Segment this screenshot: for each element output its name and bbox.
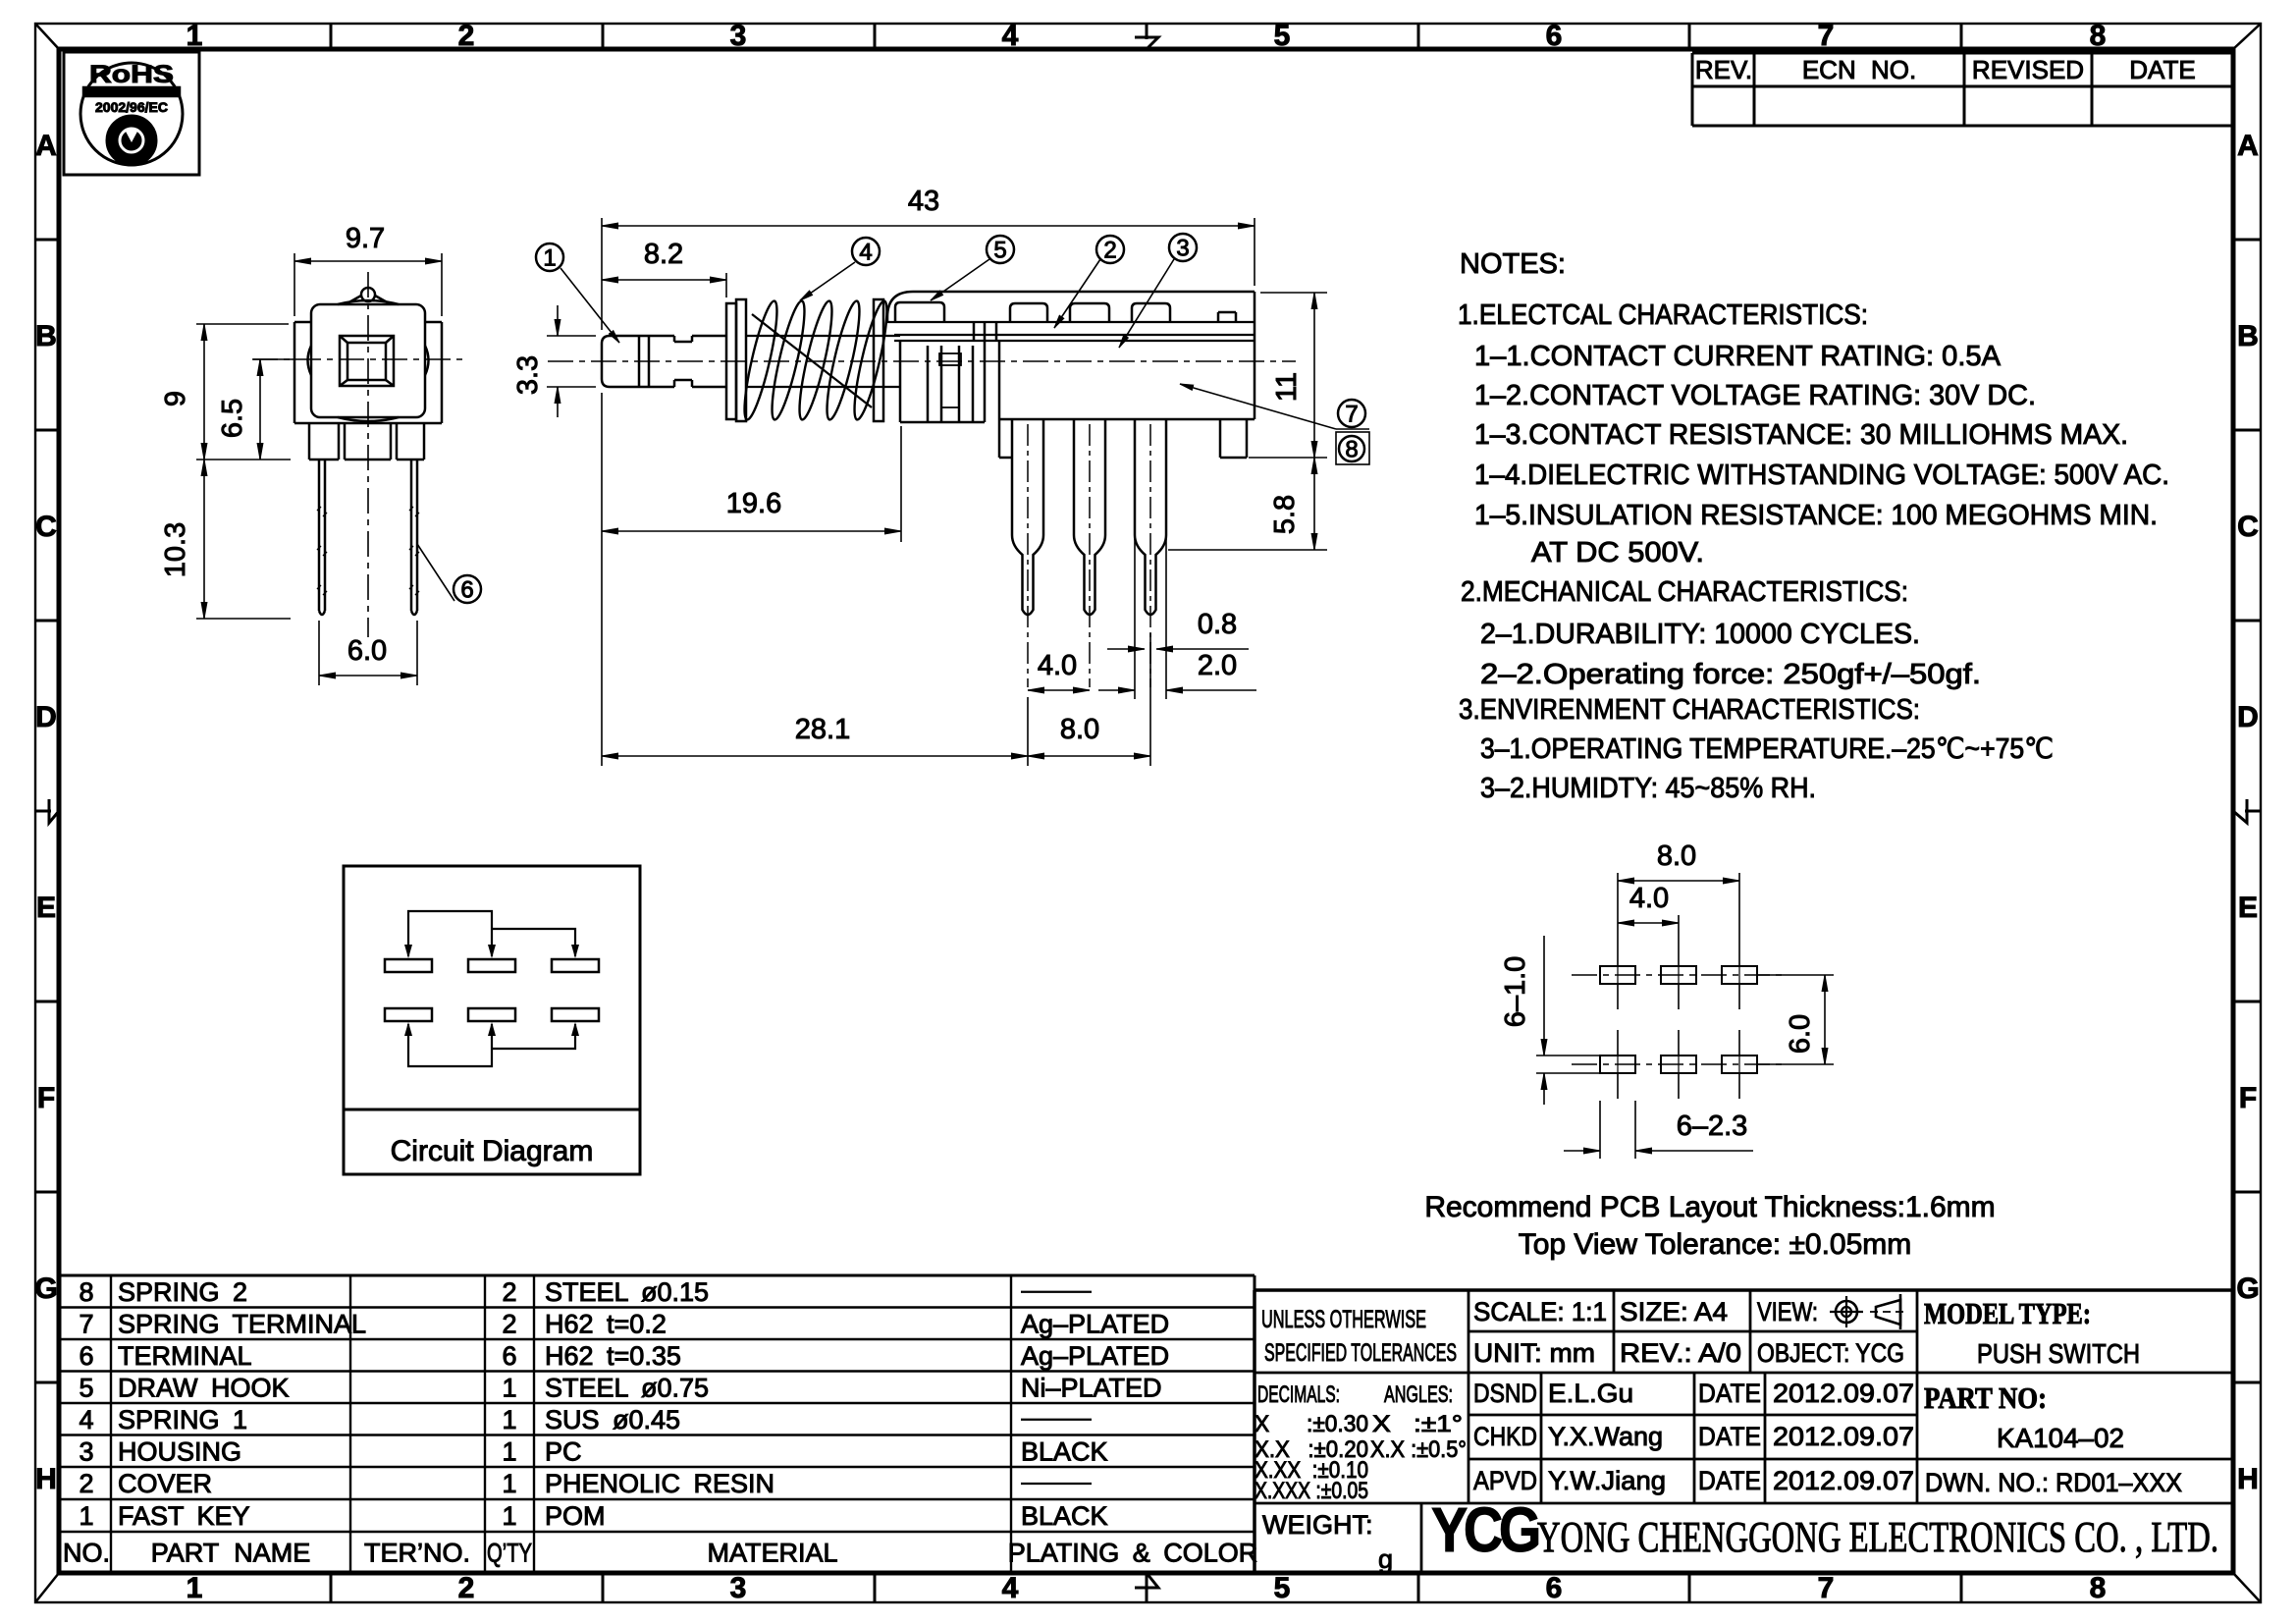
side view: cover plate lines bbox=[887, 321, 1255, 323]
side view: right mounting foot bbox=[1219, 419, 1222, 458]
svg-text:G: G bbox=[2236, 1272, 2259, 1305]
svg-text:1: 1 bbox=[187, 20, 203, 52]
svg-text:3: 3 bbox=[730, 1572, 747, 1604]
RoHS logo box bbox=[64, 52, 199, 175]
bottom centering mark bbox=[1146, 1587, 1148, 1602]
svg-text:9: 9 bbox=[160, 391, 191, 406]
svg-text:SPRING TERMINAL: SPRING TERMINAL bbox=[118, 1309, 366, 1338]
svg-text:6–2.3: 6–2.3 bbox=[1677, 1110, 1748, 1142]
svg-text:DRAW HOOK: DRAW HOOK bbox=[118, 1373, 290, 1402]
title block frame bbox=[1255, 1288, 2233, 1292]
dimension 6.0 bbox=[318, 621, 320, 685]
svg-text:6: 6 bbox=[79, 1341, 93, 1371]
front view: bottom arc of cover bbox=[338, 417, 399, 421]
dimension 4.0 bbox=[1028, 689, 1090, 691]
front view: horizontal centerline bbox=[252, 358, 466, 360]
pcb pad r1c3 bbox=[1722, 966, 1757, 984]
svg-text:G: G bbox=[34, 1272, 57, 1305]
svg-text:8: 8 bbox=[2090, 1572, 2107, 1604]
svg-text:MODEL TYPE:: MODEL TYPE: bbox=[1924, 1296, 2091, 1330]
pcb row centerlines bbox=[1572, 974, 1787, 976]
svg-text:SPECIFIED TOLERANCES: SPECIFIED TOLERANCES bbox=[1264, 1339, 1457, 1367]
dimension 10.3 bbox=[196, 618, 291, 620]
pcb dimension 6.0 bbox=[1757, 974, 1834, 976]
svg-text:1: 1 bbox=[502, 1469, 516, 1498]
svg-text:1: 1 bbox=[502, 1405, 516, 1435]
svg-text:REV.: A/0: REV.: A/0 bbox=[1620, 1338, 1741, 1368]
svg-text:2: 2 bbox=[502, 1309, 516, 1338]
svg-text:5.8: 5.8 bbox=[1269, 495, 1301, 534]
svg-text:1.ELECTCAL CHARACTERISTICS:: 1.ELECTCAL CHARACTERISTICS: bbox=[1458, 299, 1868, 331]
RoHS band bbox=[82, 86, 181, 97]
dimension 3.3 bbox=[547, 335, 596, 337]
svg-text:H62 t=0.35: H62 t=0.35 bbox=[545, 1341, 681, 1371]
svg-text:B: B bbox=[2237, 320, 2259, 352]
svg-text:SIZE: A4: SIZE: A4 bbox=[1620, 1297, 1728, 1326]
svg-text:4.0: 4.0 bbox=[1629, 883, 1669, 914]
corner diagonal marks bbox=[35, 24, 59, 49]
side view: pin3 edge extension lines bbox=[1134, 535, 1136, 699]
first angle projection cone symbol bbox=[1876, 1300, 1900, 1325]
svg-text:2–1.DURABILITY: 10000 CYCLES.: 2–1.DURABILITY: 10000 CYCLES. bbox=[1480, 619, 1920, 650]
pcb dimension 4.0 bbox=[1678, 915, 1680, 941]
side view: housing body bbox=[998, 341, 1001, 419]
svg-text:REVISED: REVISED bbox=[1972, 55, 2084, 84]
svg-text:AT DC 500V.: AT DC 500V. bbox=[1531, 537, 1704, 568]
svg-text:3.3: 3.3 bbox=[512, 355, 544, 395]
svg-text:OBJECT: YCG: OBJECT: YCG bbox=[1757, 1338, 1904, 1368]
svg-text:DECIMALS:: DECIMALS: bbox=[1257, 1381, 1340, 1408]
svg-text:Recommend PCB Layout Thickn: Recommend PCB Layout Thickness:1.6mm bbox=[1424, 1191, 1995, 1223]
pcb dimension 8.0 bbox=[1617, 873, 1619, 941]
border zone tick marks bottom bbox=[330, 1573, 333, 1602]
dimension 8.2 bbox=[725, 273, 727, 298]
pcb dimension 6-2.3 bbox=[1599, 1101, 1601, 1159]
dimension 28.1 bbox=[601, 393, 603, 766]
svg-text:6: 6 bbox=[1546, 20, 1563, 52]
svg-text:ANGLES:: ANGLES: bbox=[1384, 1381, 1453, 1408]
svg-text:SUS ø0.45: SUS ø0.45 bbox=[545, 1405, 680, 1435]
svg-text:H: H bbox=[35, 1463, 57, 1495]
svg-text:5: 5 bbox=[79, 1373, 93, 1402]
svg-text:2012.09.07: 2012.09.07 bbox=[1773, 1466, 1914, 1495]
circuit wire bottom 2-3 bbox=[492, 1024, 575, 1049]
svg-text:Q’TY: Q’TY bbox=[487, 1539, 532, 1568]
svg-text:DSND: DSND bbox=[1473, 1379, 1537, 1408]
front view: right terminal pin bbox=[410, 460, 413, 611]
svg-text:X.X :±0.5°: X.X :±0.5° bbox=[1370, 1436, 1467, 1463]
svg-text:3–1.OPERATING TEMPERATURE.–25℃: 3–1.OPERATING TEMPERATURE.–25℃~+75℃ bbox=[1480, 733, 2054, 765]
dimension 43 bbox=[601, 218, 603, 330]
svg-text:C: C bbox=[35, 511, 57, 543]
dimension 9 bbox=[196, 323, 289, 325]
svg-text:Ag–PLATED: Ag–PLATED bbox=[1021, 1341, 1169, 1371]
svg-text:BLACK: BLACK bbox=[1021, 1436, 1108, 1466]
svg-text:Y.X.Wang: Y.X.Wang bbox=[1548, 1422, 1663, 1451]
svg-text:4: 4 bbox=[79, 1405, 93, 1435]
svg-text:5: 5 bbox=[993, 237, 1006, 263]
svg-text:2012.09.07: 2012.09.07 bbox=[1773, 1379, 1914, 1408]
svg-text:7: 7 bbox=[1818, 20, 1835, 52]
dimension 8.0 bbox=[1028, 755, 1150, 757]
svg-text:H62 t=0.2: H62 t=0.2 bbox=[545, 1309, 667, 1338]
svg-text:3–2.HUMIDTY: 45~85% RH.: 3–2.HUMIDTY: 45~85% RH. bbox=[1480, 773, 1816, 804]
svg-text:11: 11 bbox=[1271, 372, 1303, 402]
svg-text:6.0: 6.0 bbox=[347, 635, 387, 667]
side view: shaft rod behind spring bbox=[746, 335, 900, 337]
svg-text:Y.W.Jiang: Y.W.Jiang bbox=[1548, 1466, 1666, 1495]
svg-text:1: 1 bbox=[79, 1501, 93, 1531]
dimension 0.8 bbox=[1107, 648, 1145, 650]
svg-text:6: 6 bbox=[460, 576, 473, 603]
svg-text:SCALE: 1:1: SCALE: 1:1 bbox=[1473, 1297, 1607, 1326]
svg-text:E: E bbox=[2238, 892, 2258, 924]
svg-text:A: A bbox=[2237, 130, 2259, 162]
svg-text:PUSH SWITCH: PUSH SWITCH bbox=[1977, 1338, 2140, 1369]
svg-text:Ag–PLATED: Ag–PLATED bbox=[1021, 1309, 1169, 1338]
RoHS logo circle bbox=[80, 63, 183, 165]
svg-text:2012.09.07: 2012.09.07 bbox=[1773, 1422, 1914, 1451]
svg-text:NO.: NO. bbox=[63, 1539, 110, 1568]
svg-text:2: 2 bbox=[1103, 237, 1116, 263]
svg-text:CHKD: CHKD bbox=[1473, 1422, 1537, 1451]
svg-text:7: 7 bbox=[79, 1309, 93, 1338]
svg-text:COVER: COVER bbox=[118, 1469, 212, 1498]
svg-text:2: 2 bbox=[79, 1469, 93, 1498]
pcb pad r1c1 bbox=[1600, 966, 1635, 984]
front view: button bevel lines bbox=[340, 336, 347, 343]
svg-text:YCG: YCG bbox=[1431, 1494, 1538, 1565]
callout 3 housing bbox=[1119, 259, 1174, 348]
pcb dimension 6-1.0 bbox=[1543, 936, 1545, 1056]
dimension 19.6 bbox=[900, 426, 902, 542]
svg-text:2002/96/EC: 2002/96/EC bbox=[95, 99, 168, 115]
svg-text:DATE: DATE bbox=[1698, 1422, 1761, 1451]
svg-text:6: 6 bbox=[1546, 1572, 1563, 1604]
side view: foot bottom extension line bbox=[1249, 457, 1327, 459]
svg-text:A: A bbox=[35, 130, 57, 162]
svg-text:5: 5 bbox=[1274, 20, 1291, 52]
svg-text:7: 7 bbox=[1345, 401, 1358, 427]
circuit pad top 1 bbox=[385, 959, 432, 972]
svg-text:8.0: 8.0 bbox=[1657, 840, 1696, 872]
side view: cover right notch bbox=[1217, 312, 1220, 322]
svg-text:3: 3 bbox=[730, 20, 747, 52]
svg-text:1–1.CONTACT CURRENT RATING:: 1–1.CONTACT CURRENT RATING: 0.5A bbox=[1474, 341, 2002, 372]
side view: draw hook hump bbox=[895, 302, 944, 322]
callout 4 spring 1 bbox=[800, 262, 855, 300]
svg-text:6–1.0: 6–1.0 bbox=[1500, 956, 1531, 1028]
pcb pad r2c1 bbox=[1600, 1056, 1635, 1073]
border zone tick marks right bbox=[2233, 239, 2261, 242]
pcb pad r1c2 bbox=[1661, 966, 1696, 984]
svg-text:B: B bbox=[35, 320, 57, 352]
callout 7 spring terminal bbox=[1180, 384, 1336, 429]
svg-text:SPRING 2: SPRING 2 bbox=[118, 1277, 247, 1307]
svg-text:7: 7 bbox=[1818, 1572, 1835, 1604]
svg-text:F: F bbox=[2239, 1082, 2257, 1114]
circuit wire top 1-2 bbox=[408, 911, 492, 956]
svg-text:2.MECHANICAL CHARACTERISTICS:: 2.MECHANICAL CHARACTERISTICS: bbox=[1461, 576, 1908, 608]
svg-text:1: 1 bbox=[502, 1436, 516, 1466]
parts list table bbox=[61, 1274, 1255, 1277]
svg-text:X :±1°: X :±1° bbox=[1372, 1411, 1463, 1437]
svg-text:PART NAME: PART NAME bbox=[151, 1539, 311, 1568]
svg-text:FAST KEY: FAST KEY bbox=[118, 1501, 250, 1531]
svg-text:WEIGHT:: WEIGHT: bbox=[1262, 1510, 1373, 1540]
svg-text:g: g bbox=[1378, 1544, 1393, 1574]
pcb pad r2c2 bbox=[1661, 1056, 1696, 1073]
dimension 6.5 bbox=[253, 358, 294, 360]
circuit pad bottom 3 bbox=[552, 1008, 599, 1021]
svg-text:SPRING 1: SPRING 1 bbox=[118, 1405, 247, 1435]
svg-text:MATERIAL: MATERIAL bbox=[707, 1539, 837, 1568]
svg-text:DWN. NO.: RD01–XXX: DWN. NO.: RD01–XXX bbox=[1925, 1468, 2182, 1497]
circuit diagram box bbox=[344, 866, 640, 1174]
svg-text:3: 3 bbox=[79, 1436, 93, 1466]
callout 1 fast key bbox=[561, 268, 619, 343]
svg-text:6.5: 6.5 bbox=[217, 399, 248, 438]
revision table bbox=[1692, 52, 2233, 55]
side view: left mounting leg bbox=[998, 419, 1001, 458]
svg-text:TER’NO.: TER’NO. bbox=[364, 1539, 470, 1568]
circuit wire bottom 1-2 bbox=[408, 1024, 492, 1066]
svg-text:D: D bbox=[35, 701, 57, 733]
side view: plunger block bbox=[899, 341, 902, 422]
svg-text:UNLESS OTHERWISE: UNLESS OTHERWISE bbox=[1261, 1306, 1426, 1333]
svg-text:1: 1 bbox=[543, 244, 556, 271]
circuit pad top 2 bbox=[468, 959, 515, 972]
svg-text:Circuit Diagram: Circuit Diagram bbox=[391, 1135, 594, 1167]
svg-text:1–3.CONTACT RESISTANCE: 30 MIL: 1–3.CONTACT RESISTANCE: 30 MILLIOHMS MAX… bbox=[1474, 419, 2128, 451]
svg-text:Ni–PLATED: Ni–PLATED bbox=[1021, 1373, 1162, 1402]
svg-text:STEEL ø0.75: STEEL ø0.75 bbox=[545, 1373, 709, 1402]
svg-text:TERMINAL: TERMINAL bbox=[118, 1341, 252, 1371]
side view: spring end washer bbox=[874, 299, 883, 421]
front view: housing flange plate bbox=[294, 321, 312, 324]
svg-text:1–4.DIELECTRIC WITHSTANDING VO: 1–4.DIELECTRIC WITHSTANDING VOLTAGE: 500… bbox=[1474, 460, 2169, 491]
svg-text:DATE: DATE bbox=[1698, 1466, 1761, 1495]
svg-text:2: 2 bbox=[458, 1572, 475, 1604]
border zone tick marks left bbox=[35, 239, 59, 242]
svg-text:8.0: 8.0 bbox=[1060, 714, 1099, 745]
svg-text:2–2.Operating force: 250gf+/–5: 2–2.Operating force: 250gf+/–50gf. bbox=[1480, 659, 1981, 690]
svg-text:DATE: DATE bbox=[1698, 1379, 1761, 1408]
svg-text:PHENOLIC RESIN: PHENOLIC RESIN bbox=[545, 1469, 774, 1498]
right centering mark bbox=[2245, 810, 2261, 813]
first angle projection target symbol bbox=[1836, 1301, 1857, 1323]
svg-text:H: H bbox=[2237, 1463, 2259, 1495]
svg-text:PLATING & COLOR: PLATING & COLOR bbox=[1008, 1539, 1258, 1568]
side view: pin taper extension line bbox=[1168, 549, 1327, 551]
svg-text:43: 43 bbox=[908, 186, 939, 217]
front view: square push button outer bbox=[340, 336, 394, 386]
svg-text:4.0: 4.0 bbox=[1038, 650, 1077, 681]
svg-text:STEEL ø0.15: STEEL ø0.15 bbox=[545, 1277, 709, 1307]
svg-text:9.7: 9.7 bbox=[346, 223, 385, 254]
RoHS recycle dot bbox=[106, 115, 157, 166]
svg-text:8.2: 8.2 bbox=[644, 239, 683, 270]
dimension 2.0 bbox=[1098, 689, 1135, 691]
side view: main centerline bbox=[548, 360, 1296, 362]
svg-text:DATE: DATE bbox=[2129, 55, 2195, 84]
svg-text:APVD: APVD bbox=[1473, 1466, 1537, 1495]
front view: right side tab arc bbox=[425, 346, 429, 375]
front view: square push button inner bbox=[347, 343, 386, 380]
svg-text:3.ENVIRENMENT CHARACTERISTICS:: 3.ENVIRENMENT CHARACTERISTICS: bbox=[1459, 694, 1920, 726]
svg-text:BLACK: BLACK bbox=[1021, 1501, 1108, 1531]
svg-text:E: E bbox=[36, 892, 56, 924]
svg-text:PART NO:: PART NO: bbox=[1924, 1380, 2047, 1415]
svg-text:8: 8 bbox=[79, 1277, 93, 1307]
front view: cover body rounded square bbox=[311, 304, 425, 417]
side view: spring 1 coils bbox=[738, 299, 782, 422]
svg-text:1: 1 bbox=[502, 1373, 516, 1402]
svg-text:Top View Tolerance: ±0.05mm: Top View Tolerance: ±0.05mm bbox=[1519, 1228, 1912, 1261]
side view: terminal pins bbox=[1011, 419, 1014, 535]
svg-text:2.0: 2.0 bbox=[1198, 650, 1237, 681]
svg-text:6: 6 bbox=[502, 1341, 516, 1371]
front view: left terminal pin bbox=[318, 460, 321, 611]
border zone tick marks top bbox=[330, 24, 333, 49]
left centering mark bbox=[35, 810, 51, 813]
dimension 11 bbox=[1313, 293, 1315, 458]
callout 6 terminal bbox=[417, 544, 454, 601]
side view: cover bumps bbox=[1010, 303, 1047, 322]
svg-text:X :±0.30: X :±0.30 bbox=[1255, 1411, 1368, 1437]
front view: fast key top knob bbox=[361, 288, 375, 301]
svg-text:1: 1 bbox=[502, 1501, 516, 1531]
svg-text:2: 2 bbox=[458, 20, 475, 52]
svg-text:X.XXX :±0.05: X.XXX :±0.05 bbox=[1255, 1478, 1368, 1504]
svg-text:F: F bbox=[37, 1082, 55, 1114]
svg-text:2: 2 bbox=[502, 1277, 516, 1307]
svg-text:D: D bbox=[2237, 701, 2259, 733]
callout 5 draw hook bbox=[931, 259, 989, 300]
front view: left side tab arc bbox=[308, 346, 312, 375]
side view: spring seat washers bbox=[726, 303, 736, 419]
circuit pad top 3 bbox=[552, 959, 599, 972]
svg-text:NOTES:: NOTES: bbox=[1460, 248, 1566, 280]
svg-text:UNIT: mm: UNIT: mm bbox=[1473, 1338, 1595, 1368]
svg-text:1–2.CONTACT VOLTAGE RATING: 30: 1–2.CONTACT VOLTAGE RATING: 30V DC. bbox=[1474, 380, 2036, 411]
svg-text:C: C bbox=[2237, 511, 2259, 543]
svg-text:8: 8 bbox=[1345, 436, 1358, 462]
svg-text:KA104–02: KA104–02 bbox=[1997, 1423, 2124, 1453]
side view: cover top with rounded corner bbox=[887, 292, 1255, 322]
svg-text:4: 4 bbox=[859, 239, 872, 265]
svg-text:8: 8 bbox=[2090, 20, 2107, 52]
svg-text:HOUSING: HOUSING bbox=[118, 1436, 241, 1466]
svg-text:6.0: 6.0 bbox=[1785, 1014, 1816, 1054]
dimension 9.7 bbox=[294, 253, 295, 316]
front view: vertical centerline bbox=[367, 272, 369, 637]
svg-text:1: 1 bbox=[187, 1572, 203, 1604]
svg-text:4: 4 bbox=[1002, 1572, 1019, 1604]
svg-text:1–5.INSULATION RESISTANCE: 100: 1–5.INSULATION RESISTANCE: 100 MEGOHMS M… bbox=[1474, 500, 2158, 531]
dimension 5.8 bbox=[1313, 458, 1315, 550]
callout 2 cover bbox=[1054, 259, 1100, 328]
svg-text:3: 3 bbox=[1176, 235, 1189, 261]
pcb pad r2c3 bbox=[1722, 1056, 1757, 1073]
svg-text:E.L.Gu: E.L.Gu bbox=[1548, 1379, 1633, 1408]
side view: fast key shaft bbox=[602, 336, 674, 387]
front view: top arc of cover bbox=[338, 300, 399, 304]
svg-text:ECN NO.: ECN NO. bbox=[1802, 55, 1916, 84]
svg-text:5: 5 bbox=[1274, 1572, 1291, 1604]
svg-text:VIEW:: VIEW: bbox=[1757, 1297, 1818, 1326]
svg-text:10.3: 10.3 bbox=[160, 522, 191, 577]
front view: lower teeth of housing bbox=[308, 423, 311, 460]
callout 8 spring 2 bbox=[1336, 432, 1369, 464]
svg-text:19.6: 19.6 bbox=[726, 488, 781, 519]
svg-text:28.1: 28.1 bbox=[795, 714, 850, 745]
svg-text:RoHS: RoHS bbox=[89, 61, 174, 88]
circuit wire top 2-3 bbox=[492, 929, 575, 956]
circuit pad bottom 2 bbox=[468, 1008, 515, 1021]
circuit pad bottom 1 bbox=[385, 1008, 432, 1021]
svg-text:YONG CHENGGONG ELECTRONICS: YONG CHENGGONG ELECTRONICS CO. , LTD. bbox=[1537, 1513, 2218, 1561]
svg-text:POM: POM bbox=[545, 1501, 606, 1531]
svg-text:0.8: 0.8 bbox=[1198, 609, 1237, 640]
svg-text:REV.: REV. bbox=[1695, 55, 1752, 84]
top centering mark bbox=[1146, 24, 1148, 39]
svg-text:PC: PC bbox=[545, 1436, 582, 1466]
svg-text:4: 4 bbox=[1002, 20, 1019, 52]
